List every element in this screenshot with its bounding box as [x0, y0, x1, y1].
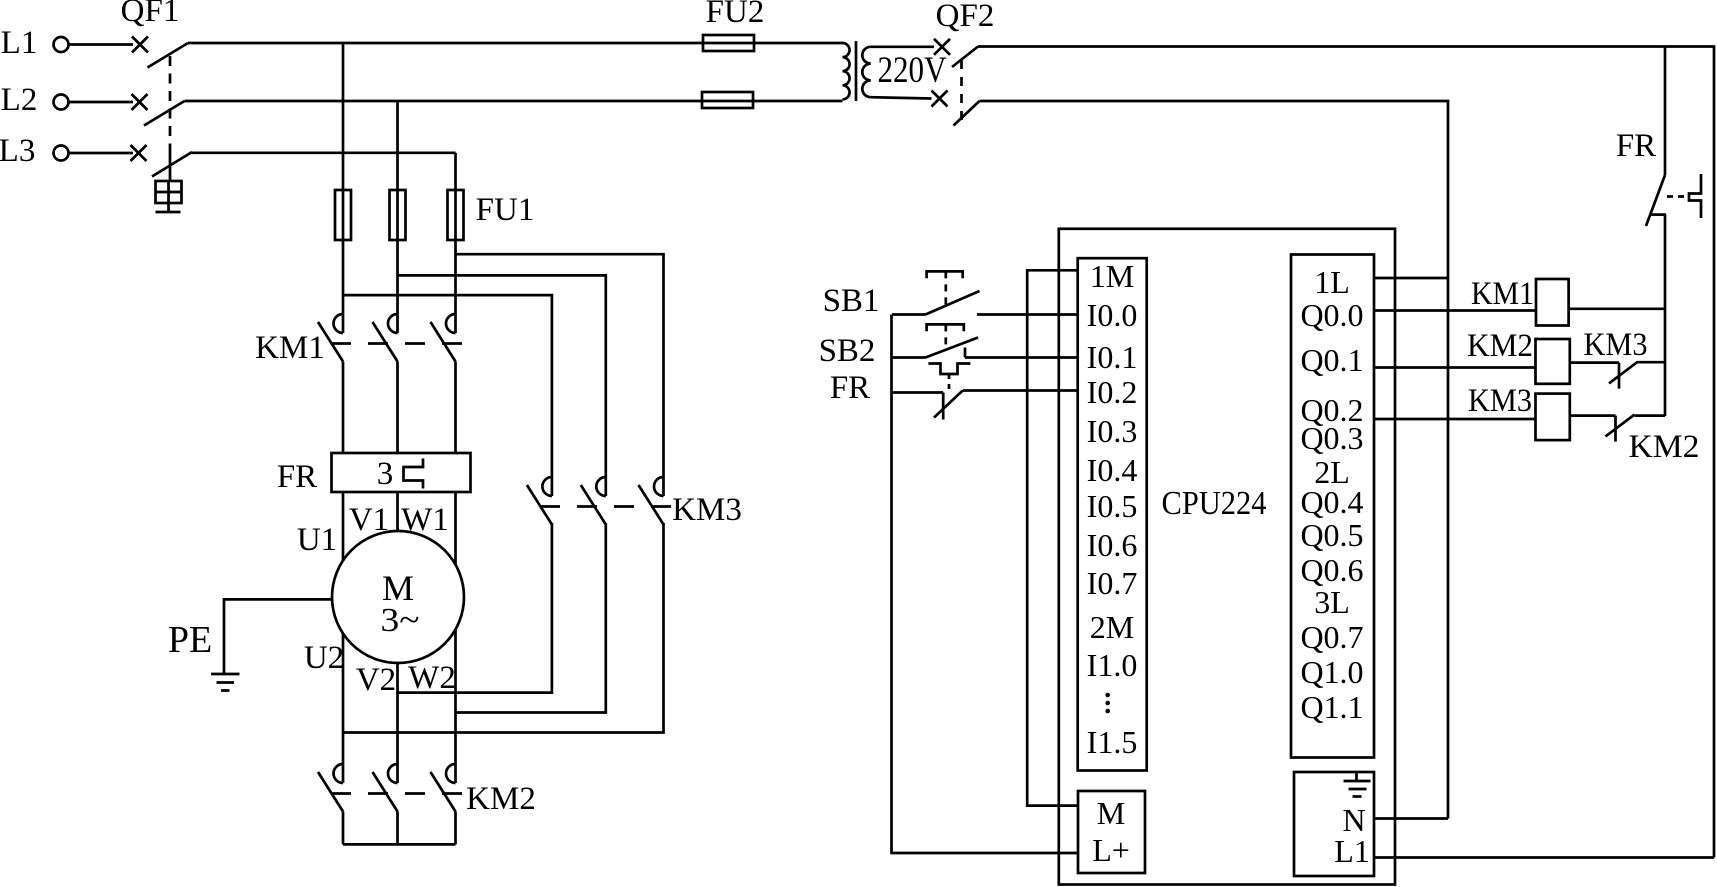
pushbutton SB1 blade [926, 291, 980, 315]
pushbutton SB2 blade [926, 338, 979, 358]
breaker QF1 pole 1 blade [148, 43, 189, 68]
wire SB2 to I0.1 [965, 356, 1078, 359]
wire KM2 contacts to star bus [343, 812, 456, 845]
NC contact KM3 tick [1618, 363, 1621, 389]
transformer primary winding [843, 43, 850, 99]
wire Q0.1 to coil KM2 [1374, 366, 1536, 369]
svg-text:SB2: SB2 [819, 333, 876, 369]
node L1 terminal [54, 37, 69, 52]
svg-text:W2: W2 [408, 660, 456, 696]
thermal relay FR drive symbol [928, 364, 970, 375]
svg-text:I0.7: I0.7 [1087, 565, 1138, 601]
fuse FU2 upper [703, 35, 754, 51]
svg-text:L1: L1 [1, 25, 38, 61]
svg-text:Q0.6: Q0.6 [1300, 552, 1363, 588]
svg-text:3L: 3L [1314, 584, 1350, 620]
svg-text:Q0.0: Q0.0 [1300, 297, 1363, 333]
wire PE from motor [224, 599, 332, 674]
wire fuse FU1b to KM1 [396, 240, 399, 333]
wire KM3 NC to FR branch [1638, 361, 1665, 364]
wire fuse FU1a to KM1 [342, 240, 345, 333]
contactor KM3 main contact 3 [639, 477, 664, 525]
svg-text:FR: FR [277, 459, 317, 495]
contactor KM2 main contact 2 [373, 764, 398, 812]
wire FR box to motor W1 [454, 492, 457, 565]
coil KM3 [1536, 394, 1570, 441]
svg-text:I1.0: I1.0 [1087, 647, 1138, 683]
contactor KM1 main contact 1 [318, 314, 343, 362]
node L3 terminal [54, 146, 69, 161]
svg-text:L1: L1 [1334, 833, 1370, 869]
contactor KM1 main contact 3 [431, 314, 456, 362]
breaker QF1 pole 1 X contact [132, 37, 148, 53]
svg-text:U2: U2 [304, 640, 344, 676]
coil KM2 [1536, 339, 1570, 384]
fuse FU1 a [335, 190, 351, 240]
pushbutton SB1 operator [927, 271, 963, 278]
wire branch L2 to KM3 middle column [398, 275, 606, 496]
thermal relay FR heater element symbol [404, 459, 424, 489]
wire rail L3 phase [192, 151, 456, 154]
motor M circle [332, 531, 464, 663]
contactor KM3 linkage dashed [540, 505, 672, 508]
svg-text:I0.3: I0.3 [1087, 413, 1138, 449]
wire rail L2 phase [185, 100, 843, 103]
PLC output terminal box [1291, 255, 1374, 758]
pushbutton SB2 tick [964, 348, 967, 358]
wire KM1 contact2 to FR box [396, 362, 399, 454]
svg-text:I0.6: I0.6 [1087, 527, 1138, 563]
breaker QF2 pole 2 X contact [932, 91, 948, 107]
svg-text:Q0.5: Q0.5 [1300, 517, 1363, 553]
pushbutton SB2 operator [927, 324, 964, 331]
svg-text:I0.0: I0.0 [1087, 297, 1138, 333]
FR reset device bracket [1689, 174, 1701, 218]
wire branch L1 to KM3 left column [343, 295, 552, 496]
svg-text:I0.1: I0.1 [1087, 339, 1138, 375]
thermal contact FR right blade [1646, 175, 1665, 226]
svg-text:KM3: KM3 [1584, 327, 1648, 363]
wire coil KM2 to KM3 NC contact [1570, 361, 1619, 364]
PLC ground symbol in N L1 box [1344, 772, 1371, 797]
svg-text:KM1: KM1 [255, 330, 325, 366]
fuse FU1 b [390, 190, 406, 240]
thermal contact FR input tick [942, 393, 945, 420]
contactor KM2 linkage dashed [331, 792, 464, 795]
contactor KM1 linkage dashed [331, 342, 464, 345]
wire L+ to left bus [892, 315, 1079, 854]
svg-text:FU1: FU1 [476, 192, 535, 228]
breaker QF2 linkage dashed [960, 60, 963, 124]
wire drop L2 to fuse FU1b [396, 101, 399, 190]
wire neutral rail from QF2 [980, 101, 1449, 819]
wire Q0.2 to coil KM3 [1374, 418, 1536, 421]
wire L2 terminal to QF1 [69, 101, 134, 104]
svg-text:1M: 1M [1090, 258, 1134, 294]
wire FR branch from top rail [1664, 47, 1667, 176]
thermal contact FR input blade [934, 391, 963, 418]
svg-text:220V: 220V [878, 50, 947, 91]
pushbutton SB2 left wire [892, 356, 926, 359]
NC contact KM3 blade [1609, 362, 1638, 384]
wire coil KM1 to FR branch [1569, 307, 1665, 310]
PLC M L+ box [1078, 791, 1145, 873]
svg-text:KM1: KM1 [1471, 276, 1534, 312]
svg-text:V2: V2 [356, 662, 396, 698]
svg-text:L+: L+ [1092, 832, 1130, 868]
svg-text:I0.2: I0.2 [1087, 374, 1138, 410]
wire FR box to motor U1 [342, 492, 345, 561]
contactor KM3 main contact 1 [527, 477, 552, 525]
wire fuse FU1c to KM1 [454, 240, 457, 333]
ground PE symbol [211, 674, 240, 691]
svg-text:W1: W1 [401, 502, 449, 538]
node L2 terminal [54, 95, 69, 110]
svg-text:KM2: KM2 [466, 781, 536, 817]
svg-text:KM2: KM2 [1629, 429, 1700, 465]
wire KM1 contact1 to FR box [342, 362, 345, 454]
FR reset device dashed link [1667, 195, 1689, 198]
NC contact KM2 tick [1614, 416, 1617, 442]
svg-text:FR: FR [830, 370, 870, 406]
svg-text:Q0.7: Q0.7 [1300, 619, 1363, 655]
wire top control rail to right edge [978, 47, 1714, 858]
wire motor U2 down to KM2 [342, 634, 345, 783]
breaker QF1 pole 3 blade [152, 152, 192, 177]
svg-text:KM2: KM2 [1467, 328, 1533, 364]
wire 1M to M vertical [1027, 270, 1078, 805]
wire drop L3 to fuse FU1c [454, 153, 457, 190]
breaker QF1 pole 2 X contact [132, 94, 148, 110]
thermal contact FR right tick [1651, 213, 1666, 216]
wire branch L3 to KM3 right column [456, 254, 664, 496]
svg-text:L3: L3 [0, 133, 35, 169]
transformer secondary winding [862, 47, 870, 97]
wire N terminal to neutral drop [1374, 817, 1448, 820]
svg-text:SB1: SB1 [823, 283, 880, 319]
svg-text:FU2: FU2 [706, 0, 765, 30]
PLC input terminal box [1078, 258, 1147, 770]
PLC N L1 box [1294, 772, 1374, 876]
svg-text:Q0.4: Q0.4 [1300, 484, 1363, 520]
svg-text:L2: L2 [1, 82, 38, 118]
breaker QF1 pole 2 blade [144, 101, 185, 126]
contactor KM3 main contact 2 [581, 477, 606, 525]
breaker QF2 pole 2 blade [954, 101, 980, 126]
breaker QF1 trip unit box [156, 181, 182, 203]
wire coil KM3 to KM2 NC contact [1570, 414, 1616, 417]
wire SB1 to I0.0 [977, 313, 1078, 316]
wire drop L1 to fuse FU1a [342, 43, 345, 190]
wire KM2 NC to FR branch [1635, 414, 1666, 417]
pushbutton SB1 left wire [892, 313, 926, 316]
svg-text:I0.5: I0.5 [1087, 488, 1138, 524]
thermal contact FR input left wire [892, 391, 943, 394]
wire FR to I0.2 [963, 389, 1078, 392]
coil KM1 [1536, 279, 1569, 326]
svg-text:I0.4: I0.4 [1087, 452, 1138, 488]
wire V2 to KM3 left column bottom [398, 523, 552, 693]
svg-text:Q0.1: Q0.1 [1300, 342, 1363, 378]
wire motor V2 down to KM2 [396, 663, 399, 783]
svg-text:QF1: QF1 [121, 0, 180, 29]
thermal relay FR heater box [332, 453, 471, 492]
svg-text:3~: 3~ [381, 602, 420, 639]
wire star point bus [343, 843, 456, 846]
svg-text:CPU224: CPU224 [1162, 485, 1267, 522]
svg-text:KM3: KM3 [1468, 383, 1532, 419]
svg-text:KM3: KM3 [672, 492, 742, 528]
svg-text:3: 3 [377, 456, 394, 492]
wire L1 terminal to right rail [1374, 856, 1714, 859]
svg-text:Q0.3: Q0.3 [1300, 420, 1363, 456]
wire transformer secondary top to QF2 [871, 45, 934, 48]
breaker QF1 trip unit stem and bar [156, 203, 181, 212]
svg-text:I1.5: I1.5 [1087, 724, 1138, 760]
transformer core [855, 41, 858, 101]
wire motor W2 down to KM2 [454, 629, 457, 783]
svg-text:QF2: QF2 [936, 0, 995, 34]
wire KM1 contact3 to FR box [454, 362, 457, 454]
wire 1L to neutral drop [1374, 277, 1448, 280]
svg-text:Q1.0: Q1.0 [1300, 654, 1363, 690]
wire FR box to motor V1 [396, 492, 399, 531]
contactor KM2 main contact 1 [318, 764, 343, 812]
wire L3 terminal to QF1 [69, 152, 134, 155]
svg-text:2M: 2M [1090, 609, 1134, 645]
wire FR contact down to coils [1664, 215, 1667, 416]
svg-text:Q1.1: Q1.1 [1300, 689, 1363, 725]
wire U2 to KM3 right column bottom [343, 523, 664, 733]
breaker QF2 pole 1 X contact [934, 39, 950, 55]
breaker QF2 pole 1 blade [952, 47, 978, 68]
svg-text:PE: PE [168, 619, 212, 661]
fuse FU1 c [448, 190, 464, 240]
contactor KM1 main contact 2 [373, 314, 398, 362]
wire transformer secondary bottom to QF2 [871, 97, 932, 98]
contactor KM2 main contact 3 [431, 764, 456, 812]
breaker QF1 pole 3 X contact [131, 145, 147, 161]
wire rail L1 phase [188, 42, 843, 45]
svg-text:FR: FR [1616, 128, 1656, 164]
wire L1 terminal to QF1 [69, 43, 134, 46]
svg-text:M: M [1097, 795, 1125, 831]
PLC CPU224 outer box [1059, 229, 1395, 885]
wire Q0.0 to coil KM1 [1374, 309, 1536, 312]
fuse FU2 lower [702, 92, 753, 108]
NC contact KM2 blade [1606, 415, 1635, 437]
wire W2 to KM3 middle column bottom [456, 523, 606, 713]
svg-text:V1: V1 [349, 502, 389, 538]
svg-text:1L: 1L [1314, 264, 1350, 300]
breaker QF1 linkage dashed [169, 56, 172, 150]
label vertical dots [1105, 693, 1110, 714]
svg-text:U1: U1 [297, 522, 337, 558]
